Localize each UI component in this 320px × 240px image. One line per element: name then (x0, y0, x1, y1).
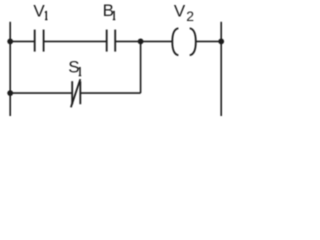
svg-text:S: S (68, 58, 79, 77)
wire: left rail to contact S1 (branch rung) (10, 92, 72, 94)
label V2 (174, 2, 194, 24)
label V1 (33, 1, 47, 20)
label B1 (103, 1, 116, 20)
svg-text:2: 2 (186, 8, 194, 24)
junction node: top rung at left rail (7, 39, 13, 45)
wire: contact S1 to branch corner (80, 92, 140, 94)
wire: contact V1 to contact B1 (44, 40, 107, 42)
contact B1 (normally open) (107, 30, 116, 52)
svg-text:V: V (174, 2, 186, 21)
coil V2 (172, 28, 196, 55)
svg-text:V: V (33, 1, 45, 20)
junction node: branch joins top rung (138, 39, 144, 45)
svg-text:B: B (103, 1, 114, 20)
right power rail (220, 22, 222, 116)
junction node: top rung at right rail (218, 39, 224, 45)
wire: branch vertical up to junction (140, 41, 142, 93)
contact S1 (normally closed) (71, 79, 80, 107)
left power rail (9, 22, 11, 116)
wire: left rail to contact V1 (10, 40, 34, 42)
wire: coil V2 to right rail (196, 40, 221, 42)
contact V1 (normally open) (35, 30, 44, 52)
label S1 (68, 58, 81, 77)
junction node: branch rung at left rail (7, 90, 13, 96)
wire: contact B1 to coil V2 (115, 40, 173, 42)
